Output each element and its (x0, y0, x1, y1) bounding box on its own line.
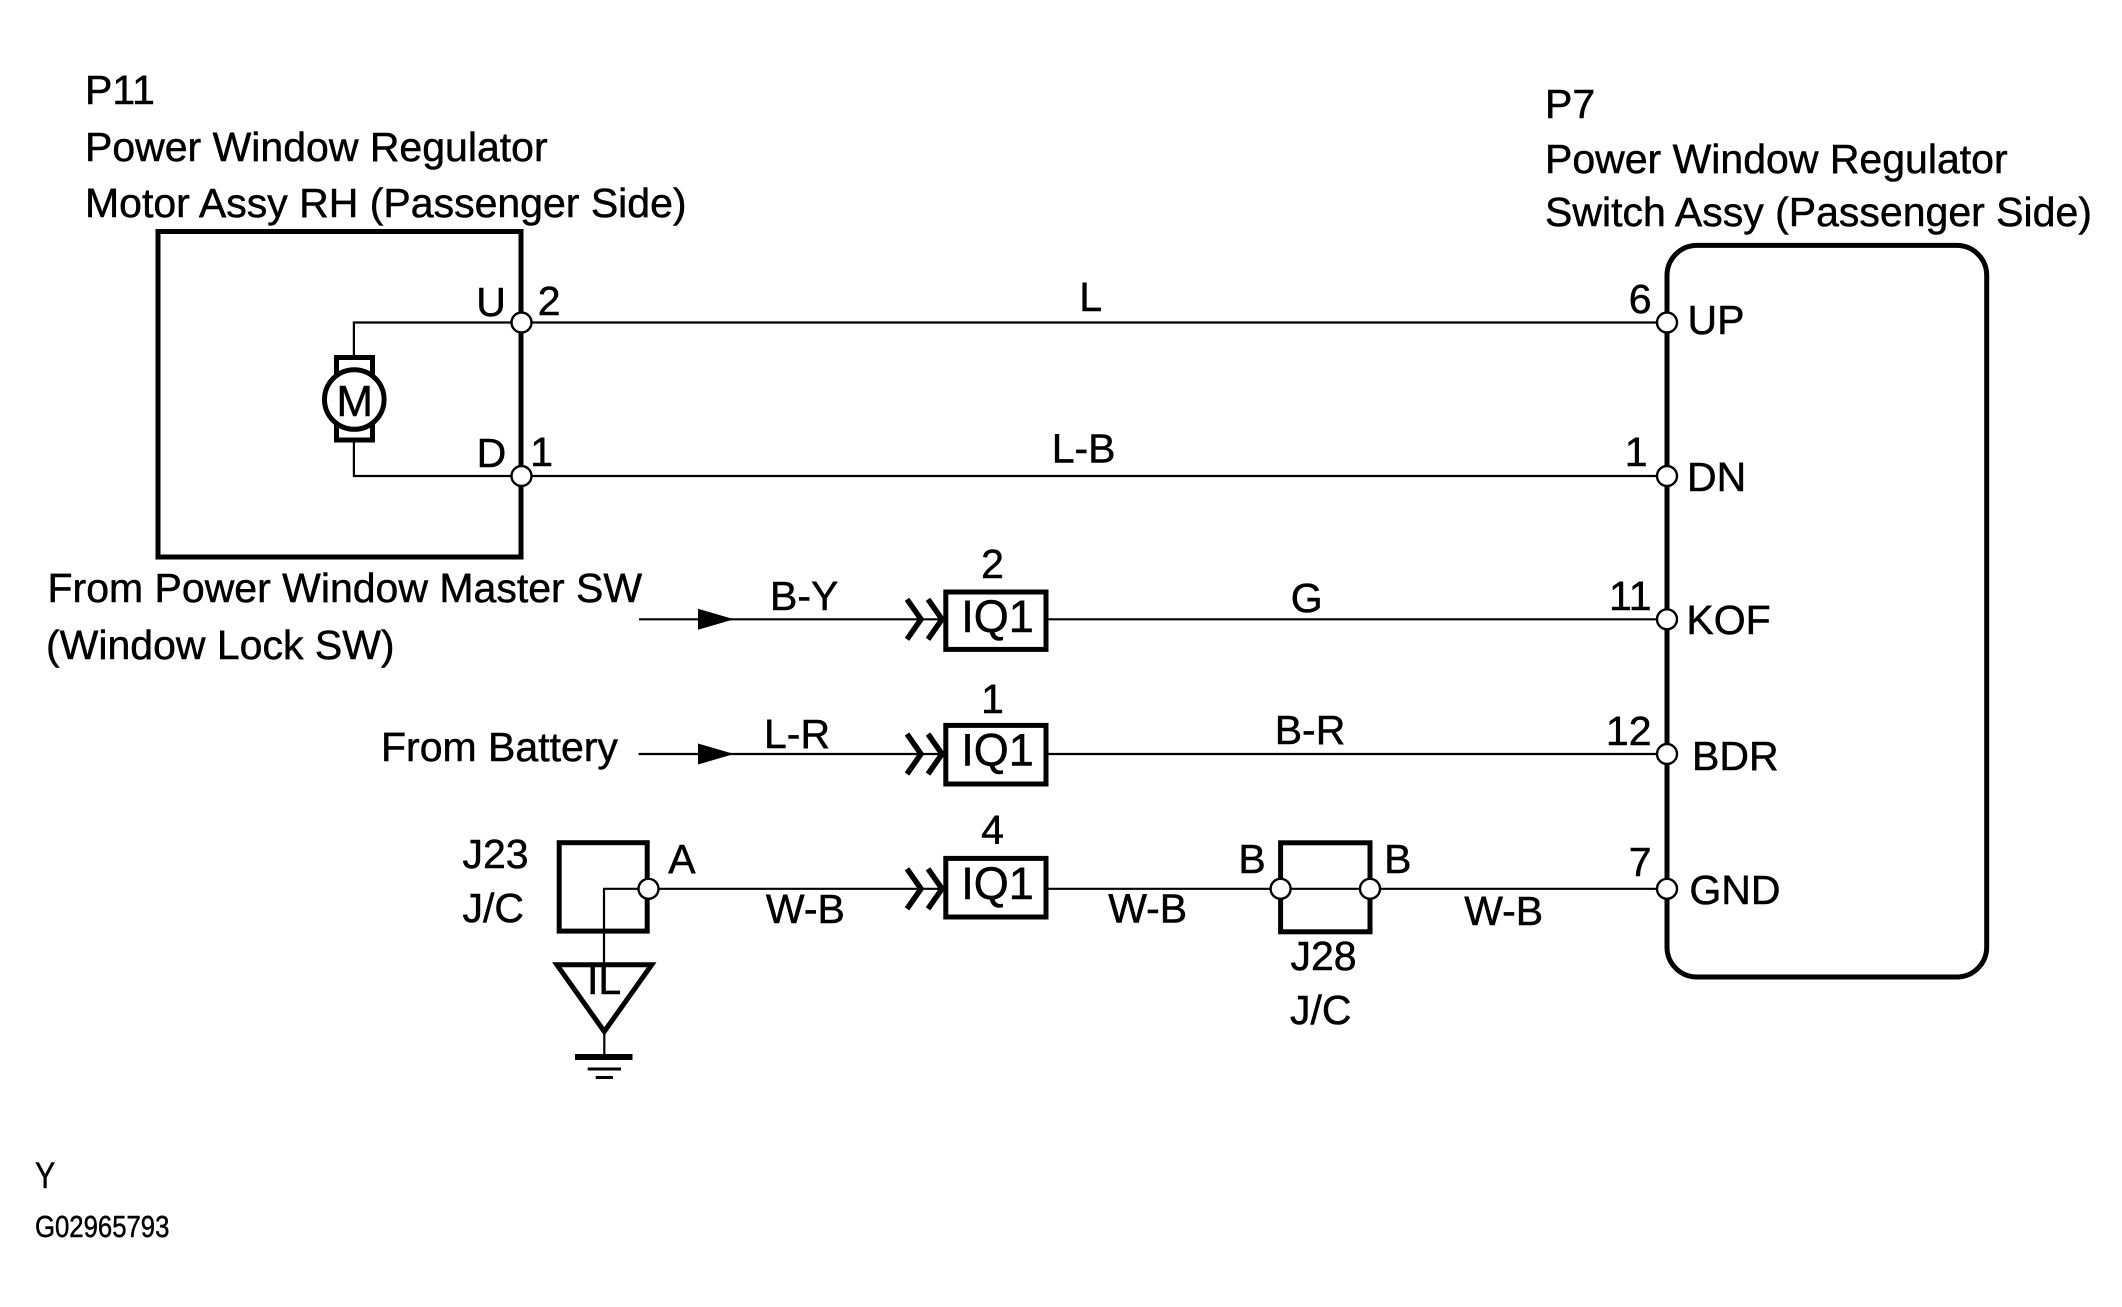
svg-text:11: 11 (1609, 573, 1652, 619)
wire G (IQ1 to KOF) (1049, 618, 1658, 620)
svg-text:D: D (477, 430, 507, 476)
svg-text:L-R: L-R (764, 711, 830, 757)
ground bar 3 (596, 1076, 613, 1079)
svg-text:Y: Y (35, 1155, 55, 1197)
junction IQ1 (pin 4) box (946, 858, 1046, 917)
svg-text:G02965793: G02965793 (35, 1210, 169, 1245)
arrow on wire L-R (698, 744, 734, 765)
wire L (U to UP) (532, 321, 1658, 323)
wire W-B (IQ1 to J28) (1049, 888, 1271, 890)
junction J23 label (463, 831, 529, 931)
splice chevrons row KOF (907, 599, 942, 639)
ground bar 1 (575, 1054, 633, 1060)
svg-text:1: 1 (530, 429, 553, 475)
junction IQ1 (pin 1) box (946, 725, 1046, 784)
svg-text:2: 2 (981, 541, 1004, 587)
wire L-B (D to DN) (532, 475, 1658, 477)
svg-text:2: 2 (538, 278, 561, 324)
splice chevrons row BDR (907, 734, 942, 774)
svg-text:M: M (336, 377, 373, 426)
pin 11 of P7 (1657, 609, 1677, 629)
svg-text:KOF: KOF (1686, 597, 1770, 643)
pin A of J23 (639, 879, 659, 899)
svg-text:IQ1: IQ1 (961, 858, 1034, 909)
svg-text:IQ1: IQ1 (961, 725, 1034, 776)
svg-text:W-B: W-B (1108, 886, 1187, 932)
motor M1 terminal bottom (337, 419, 373, 440)
ground IL triangle (557, 965, 652, 1032)
ground stem (603, 1032, 605, 1055)
junction J28 box (1281, 843, 1370, 932)
motor M1 body (325, 370, 385, 430)
svg-text:1: 1 (981, 676, 1004, 722)
svg-text:7: 7 (1629, 839, 1652, 885)
wire motor U internal (354, 323, 512, 358)
svg-text:Power Window Regulator: Power Window Regulator (85, 124, 548, 170)
svg-text:L: L (1079, 274, 1102, 320)
svg-text:J28: J28 (1291, 933, 1357, 979)
splice chevrons row GND (907, 869, 942, 909)
junction IQ1 (pin 2) box (946, 592, 1046, 649)
svg-text:J/C: J/C (1290, 987, 1352, 1033)
svg-text:B-R: B-R (1275, 707, 1346, 753)
wire motor D internal (354, 441, 512, 476)
svg-text:W-B: W-B (766, 886, 845, 932)
pin 12 of P7 (1657, 744, 1677, 764)
pin B1 of J28 (1271, 879, 1291, 899)
svg-text:(Window Lock SW): (Window Lock SW) (46, 622, 395, 668)
svg-text:DN: DN (1687, 454, 1746, 500)
svg-text:6: 6 (1629, 276, 1652, 322)
svg-text:GND: GND (1689, 867, 1780, 913)
pin 7 of P7 (1657, 879, 1677, 899)
svg-text:G: G (1291, 575, 1323, 621)
pin D of P11 (512, 466, 532, 486)
wire W-B (J28 to GND pin) (1380, 888, 1657, 890)
pin 1 of P7 (1657, 466, 1677, 486)
svg-text:J/C: J/C (463, 885, 525, 931)
junction J23 box (559, 843, 647, 931)
node From Power Window Master SW (46, 565, 642, 668)
svg-text:U: U (476, 279, 506, 325)
junction J28 label (1290, 933, 1357, 1033)
wire L-R (battery to IQ1) (639, 753, 943, 755)
svg-text:12: 12 (1606, 708, 1652, 754)
svg-text:Switch Assy (Passenger Side): Switch Assy (Passenger Side) (1545, 189, 2092, 235)
svg-text:IQ1: IQ1 (961, 591, 1034, 642)
svg-text:IL: IL (587, 957, 621, 1003)
node P11 title (85, 67, 687, 226)
svg-text:UP: UP (1688, 297, 1745, 343)
motor M1 terminal top (337, 358, 373, 380)
wire B-Y (master SW to IQ1) (639, 618, 943, 620)
svg-text:1: 1 (1625, 429, 1648, 475)
pin B2 of J28 (1360, 879, 1380, 899)
wire inside J28 (1291, 888, 1360, 890)
svg-text:W-B: W-B (1464, 888, 1543, 934)
connector P7 box (switch assy) (1667, 245, 1987, 977)
svg-text:4: 4 (981, 807, 1004, 853)
wire B-R (IQ1 to BDR) (1049, 753, 1658, 755)
svg-text:B-Y: B-Y (770, 573, 838, 619)
svg-text:B: B (1384, 836, 1411, 882)
pin U of P11 (512, 313, 532, 333)
svg-text:Motor Assy RH (Passenger Side): Motor Assy RH (Passenger Side) (85, 180, 687, 226)
svg-text:A: A (668, 836, 696, 882)
pin 6 of P7 (1657, 313, 1677, 333)
svg-text:From Power Window Master SW: From Power Window Master SW (48, 565, 643, 611)
wire ground elbow inside J23 (604, 889, 649, 963)
wire W-B (J23 to IQ1) (659, 888, 944, 890)
svg-text:Power Window Regulator: Power Window Regulator (1545, 136, 2008, 182)
svg-text:B: B (1238, 836, 1265, 882)
svg-text:P7: P7 (1545, 81, 1595, 127)
svg-text:P11: P11 (85, 67, 155, 113)
arrow on wire B-Y (698, 609, 734, 630)
svg-text:From Battery: From Battery (381, 724, 618, 770)
node P7 title (1545, 81, 2092, 235)
ground bar 2 (588, 1068, 621, 1071)
svg-text:J23: J23 (463, 831, 529, 877)
svg-text:L-B: L-B (1052, 426, 1116, 472)
connector P11 box (motor assy) (158, 232, 521, 558)
svg-text:BDR: BDR (1692, 733, 1779, 779)
